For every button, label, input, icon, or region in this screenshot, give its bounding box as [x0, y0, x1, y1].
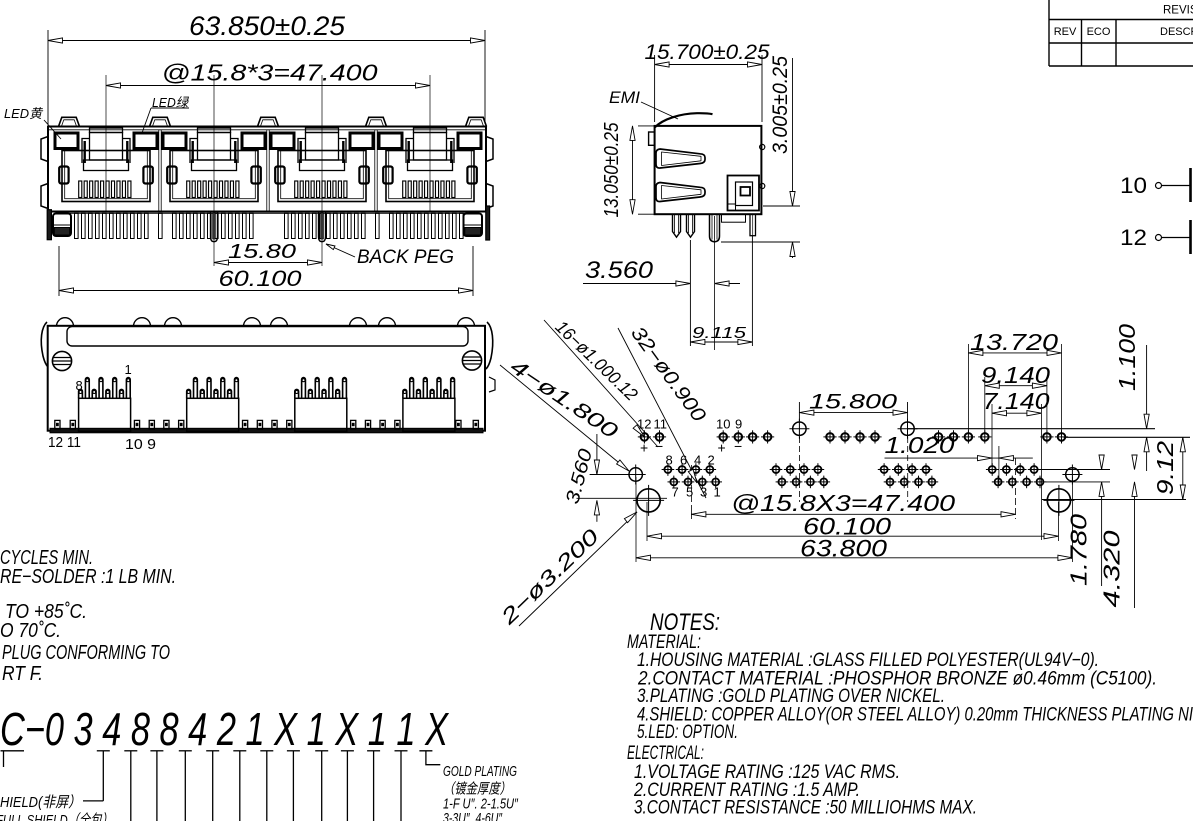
pcb footprint side 1.8mm holes	[626, 474, 646, 476]
svg-text:4.320: 4.320	[1099, 530, 1125, 607]
svg-text:LED黄: LED黄	[4, 106, 44, 121]
side view dim 3.560 arrows	[657, 283, 691, 285]
bottom view left shield clip	[41, 322, 48, 367]
side view dim 9.115 line	[690, 341, 752, 343]
svg-text:3.CONTACT RESISTANCE :50 MI: 3.CONTACT RESISTANCE :50 MILLIOHMS MAX.	[634, 797, 977, 819]
svg-text:1: 1	[714, 485, 721, 500]
front view dim 15.80 line	[214, 262, 322, 264]
front view shell outline	[48, 127, 486, 212]
bottom view top bumps	[57, 318, 74, 326]
svg-text:+: +	[718, 440, 726, 456]
front view back pegs	[211, 212, 218, 242]
side view dim 15.700 line	[655, 64, 762, 66]
front view left foot	[53, 214, 71, 237]
part number drop lines	[97, 750, 110, 752]
pcb footprint signal holes 4 groups staggered	[662, 469, 675, 471]
front view: dim 47.400 line	[106, 85, 430, 87]
svg-text:15.700±0.25: 15.700±0.25	[645, 41, 770, 64]
svg-text:3-3U″. 4-6U″.: 3-3U″. 4-6U″.	[443, 811, 505, 821]
side view left tab	[649, 132, 655, 145]
svg-text:3.005±0.25: 3.005±0.25	[769, 56, 792, 154]
svg-text:5: 5	[686, 485, 693, 500]
pcb leader 4-dia1.800	[506, 355, 622, 444]
svg-text:HIELD(非屏）: HIELD(非屏）	[0, 794, 81, 811]
svg-text:12 11: 12 11	[48, 434, 81, 451]
side view lower slot	[656, 183, 705, 202]
side view dim 13.050 line	[632, 126, 634, 214]
front view side EMI tabs left	[41, 137, 48, 162]
pcb footprint top 1.8mm holes	[789, 428, 809, 430]
svg-text:12: 12	[1120, 225, 1147, 250]
svg-text:C−0 3 4 8 8 4 2 1 X 1 X 1 1 X: C−0 3 4 8 8 4 2 1 X 1 X 1 1 X	[0, 703, 449, 755]
svg-text:REVISION: REVISION	[1163, 5, 1193, 17]
svg-text:RT F.: RT F.	[2, 663, 43, 685]
side view legs	[673, 214, 681, 237]
svg-text:@15.8X3=47.400: @15.8X3=47.400	[731, 490, 955, 516]
svg-text:−: −	[655, 438, 663, 454]
front view: port centerlines	[105, 75, 107, 211]
svg-text:REV: REV	[1054, 26, 1077, 38]
svg-text:DESCRIPTION: DESCRIPTION	[1160, 26, 1193, 38]
front view right corner bar	[486, 206, 490, 240]
bottom view top inner bar	[67, 327, 468, 346]
bottom view screw circle right	[462, 351, 481, 370]
svg-text:（镀金厚度）: （镀金厚度）	[443, 781, 511, 798]
svg-text:63.800: 63.800	[800, 536, 888, 563]
svg-text:13.050±0.25: 13.050±0.25	[601, 122, 623, 218]
front view: dim 63.850 line	[48, 40, 485, 42]
svg-text:8: 8	[76, 378, 83, 393]
svg-text:O 70˚C.: O 70˚C.	[0, 620, 61, 642]
side view shield leg	[710, 214, 720, 242]
side view body outline	[655, 126, 762, 214]
svg-text:10 9: 10 9	[125, 436, 156, 453]
svg-text:BACK PEG: BACK PEG	[357, 246, 454, 268]
svg-text:3: 3	[700, 485, 707, 500]
svg-text:2: 2	[708, 453, 715, 468]
front view top mounting tabs	[59, 117, 80, 126]
svg-text:10: 10	[1120, 173, 1147, 198]
front view shield fingers comb	[75, 213, 79, 238]
svg-text:FULL SHIELD（全包）: FULL SHIELD（全包）	[0, 812, 113, 821]
svg-text:60.100: 60.100	[219, 266, 303, 291]
bottom view bottom thick edge	[50, 428, 483, 433]
svg-text:PLUG CONFORMING TO: PLUG CONFORMING TO	[2, 642, 170, 664]
pcb footprint row B extension line right	[1064, 436, 1190, 438]
bottom view bottom feet squares	[55, 420, 60, 429]
svg-text:1.100: 1.100	[1114, 324, 1140, 391]
svg-text:@15.8*3=47.400: @15.8*3=47.400	[162, 60, 378, 86]
svg-text:15.80: 15.80	[228, 241, 296, 263]
svg-text:63.850±0.25: 63.850±0.25	[189, 11, 346, 41]
pcb footprint stagger extension lines	[1040, 469, 1110, 471]
svg-text:4: 4	[694, 453, 701, 468]
front view port dividers	[158, 130, 160, 212]
svg-text:1.780: 1.780	[1066, 514, 1092, 586]
svg-text:1.020: 1.020	[885, 432, 955, 458]
svg-text:7.140: 7.140	[983, 388, 1050, 414]
bottom view screw circle left	[52, 351, 71, 370]
side view rear stub and pin	[722, 214, 746, 222]
bottom view body outline	[48, 326, 485, 431]
svg-text:EMI: EMI	[609, 88, 640, 107]
pcb footprint main line A	[908, 428, 1156, 430]
svg-text:10: 10	[716, 417, 730, 432]
side view right bumps	[760, 144, 765, 149]
svg-text:5.LED: OPTION.: 5.LED: OPTION.	[637, 721, 738, 743]
svg-text:3.560: 3.560	[585, 257, 654, 284]
front view shield finger rail	[57, 212, 477, 214]
side view dim 3.005 line	[792, 58, 794, 206]
svg-text:7: 7	[672, 485, 679, 500]
pcb footprint LED hole row	[638, 436, 651, 438]
front view side EMI tabs right	[486, 137, 493, 162]
pcb leader 2-dia3.200	[496, 525, 604, 630]
front view left corner bar	[47, 210, 51, 240]
svg-text:GOLD PLATING: GOLD PLATING	[443, 764, 517, 780]
svg-text:RE−SOLDER :1 LB MIN.: RE−SOLDER :1 LB MIN.	[0, 566, 176, 588]
pcb leader 32-dia0.900	[626, 323, 710, 427]
side view EMI finger	[655, 113, 713, 127]
svg-text:+: +	[640, 440, 648, 456]
svg-text:−: −	[734, 438, 742, 454]
svg-text:1: 1	[125, 362, 132, 377]
pcb footprint 3.2mm holes	[633, 499, 664, 501]
part number bracket to gold plating	[419, 751, 440, 765]
bottom view right shield clip	[486, 322, 493, 369]
part number bracket under C	[1, 751, 25, 767]
front view right foot	[464, 214, 483, 237]
side view LED housing box	[728, 176, 760, 211]
side view upper slot	[656, 149, 705, 168]
revision table	[1048, 0, 1050, 66]
front view dim 60.100 line	[59, 290, 473, 292]
svg-text:9.12: 9.12	[1152, 441, 1178, 495]
svg-text:9: 9	[735, 417, 742, 432]
svg-text:ECO: ECO	[1087, 26, 1111, 38]
pcb footprint port centerlines dashed	[799, 437, 801, 502]
pcb leader 16-dia1.00	[552, 317, 642, 405]
svg-text:15.800: 15.800	[809, 390, 897, 414]
svg-text:8: 8	[666, 453, 673, 468]
